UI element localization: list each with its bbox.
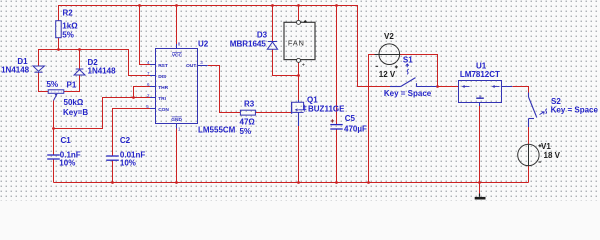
- svg-text:V2: V2: [384, 32, 394, 41]
- node D2 top: [78, 48, 81, 51]
- wire V1 bottom to bus: [528, 166, 530, 183]
- svg-text:TRI: TRI: [158, 96, 166, 102]
- wire IC GND down: [176, 129, 178, 183]
- svg-text:OUT: OUT: [186, 63, 196, 69]
- svg-text:S1: S1: [403, 55, 413, 64]
- switch S1: [390, 78, 437, 87]
- wire C5 bottom: [336, 129, 338, 183]
- svg-text:LM555CM: LM555CM: [198, 126, 236, 135]
- svg-text:Key = Space: Key = Space: [384, 89, 432, 98]
- wire FAN top: [298, 6, 300, 21]
- svg-text:CON: CON: [158, 107, 169, 113]
- wire D2 bottom to P1 right: [64, 75, 80, 91]
- svg-text:47Ω: 47Ω: [240, 118, 256, 127]
- wire CON to C2: [113, 109, 151, 157]
- svg-text:Key=B: Key=B: [63, 108, 88, 117]
- diode D3: [267, 42, 277, 50]
- svg-text:MBR1645: MBR1645: [230, 39, 267, 48]
- svg-text:C5: C5: [345, 114, 356, 123]
- svg-text:U2: U2: [198, 39, 209, 48]
- svg-text:10%: 10%: [59, 159, 75, 168]
- svg-text:RST: RST: [158, 63, 168, 69]
- capacitor C2: [106, 156, 119, 160]
- svg-text:V1: V1: [541, 142, 551, 151]
- wire THR link: [134, 87, 151, 98]
- wire D2 anode top: [79, 50, 81, 69]
- potentiometer P1: [48, 90, 64, 101]
- wire FAN bottom to Q1 drain: [298, 62, 300, 100]
- transistor Q1 BUZ11GE: [292, 100, 304, 126]
- wire ground bus: [54, 182, 529, 184]
- svg-text:5%: 5%: [240, 127, 252, 136]
- node Q1 source bus: [297, 181, 300, 184]
- node wiper C1: [52, 127, 55, 130]
- node D3 top: [271, 4, 274, 7]
- svg-text:C1: C1: [61, 136, 72, 145]
- svg-text:LM7812CT: LM7812CT: [460, 70, 500, 79]
- timer U2 LM555CM: [150, 44, 208, 129]
- svg-text:DIS: DIS: [158, 74, 167, 80]
- wire top bus R2 to S1 drop: [59, 6, 391, 87]
- resistor R2: [56, 21, 62, 38]
- switch S2: [529, 93, 537, 128]
- wire OUT to R3: [208, 66, 241, 113]
- svg-text:50kΩ: 50kΩ: [64, 98, 84, 107]
- svg-text:5%: 5%: [62, 30, 74, 39]
- source V2: [379, 44, 400, 65]
- node D3 drain: [297, 74, 300, 77]
- wire S1 left feed: [358, 86, 391, 88]
- node earth bus: [478, 181, 481, 184]
- wire node to U1 input: [438, 86, 459, 88]
- wire R3 to Q1 gate: [255, 112, 291, 114]
- svg-text:1N4148: 1N4148: [1, 66, 30, 75]
- svg-text:18 V: 18 V: [544, 151, 561, 160]
- svg-text:R3: R3: [244, 100, 255, 109]
- svg-text:THR: THR: [158, 85, 168, 91]
- diode D2: [74, 69, 85, 75]
- wire RST riser: [140, 6, 151, 65]
- node R2 bottom: [57, 48, 60, 51]
- wire S2 to V1: [528, 127, 530, 144]
- svg-text:1kΩ: 1kΩ: [62, 22, 78, 31]
- svg-text:FAN: FAN: [288, 39, 305, 48]
- svg-text:C2: C2: [120, 136, 131, 145]
- svg-text:12 V: 12 V: [379, 70, 396, 79]
- svg-text:P1: P1: [67, 81, 77, 90]
- svg-text:Key = Space: Key = Space: [551, 106, 599, 115]
- wire C1 bottom: [53, 159, 55, 183]
- capacitor C5: [330, 125, 342, 129]
- svg-text:470µF: 470µF: [344, 125, 367, 134]
- wire V2 right to U1 input node: [400, 55, 438, 87]
- wire Q1 source to bus: [298, 126, 300, 183]
- diode D1: [33, 66, 44, 72]
- svg-text:VCC: VCC: [172, 52, 183, 58]
- ground: [479, 194, 481, 197]
- svg-text:D3: D3: [257, 30, 268, 39]
- wire DIS rail: [39, 50, 151, 76]
- node IC gnd bus: [175, 181, 178, 184]
- wire D3 top: [272, 6, 274, 42]
- svg-text:1N4148: 1N4148: [88, 67, 117, 76]
- svg-text:BUZ11GE: BUZ11GE: [308, 105, 345, 114]
- wire U1 gnd to earth: [479, 106, 481, 194]
- wires (red): [39, 6, 529, 194]
- node U1 input: [436, 85, 439, 88]
- wire D1 cathode to P1 left: [39, 73, 49, 92]
- svg-text:10%: 10%: [120, 159, 136, 168]
- node V2 bus: [367, 181, 370, 184]
- wire C2 bottom: [112, 160, 114, 182]
- svg-text:GND: GND: [171, 117, 182, 123]
- node C5 bus: [335, 181, 338, 184]
- wire R2 bottom: [58, 38, 60, 50]
- node FAN top: [297, 4, 300, 7]
- svg-text:Q1: Q1: [307, 96, 318, 105]
- source V1: [518, 144, 539, 165]
- node C5 top: [335, 4, 338, 7]
- svg-text:S2: S2: [551, 97, 561, 106]
- node C2 bus: [111, 181, 114, 184]
- svg-text:+: +: [302, 63, 305, 69]
- capacitor C1: [47, 155, 60, 159]
- svg-text:R2: R2: [63, 9, 74, 18]
- svg-text:D2: D2: [88, 58, 99, 67]
- node RST top: [138, 4, 141, 7]
- wire U1 out to S2: [512, 87, 528, 93]
- wire wiper down to C1: [53, 101, 55, 156]
- wire C5 from top bus: [336, 6, 338, 125]
- wire TRI net: [54, 98, 151, 129]
- node THR TRI: [132, 96, 135, 99]
- svg-text:5%: 5%: [47, 80, 59, 89]
- regulator U1 LM7812CT: [459, 81, 502, 103]
- fan: [284, 22, 315, 59]
- wire VCC riser: [176, 6, 178, 45]
- node VCC top: [175, 4, 178, 7]
- wire V2 left lead to bus: [369, 55, 375, 183]
- resistor R3: [240, 110, 255, 115]
- wire D3 anode to drain column: [273, 49, 299, 75]
